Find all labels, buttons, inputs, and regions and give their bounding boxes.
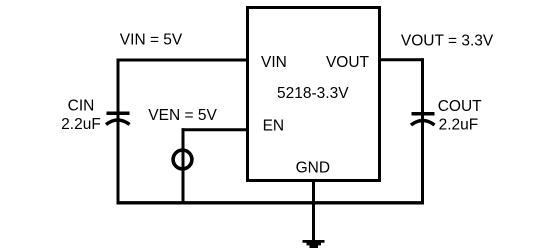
wire bottom ground rail bbox=[117, 201, 425, 204]
wire EN horizontal bbox=[182, 128, 250, 131]
wire VOUT horizontal bbox=[378, 58, 424, 61]
svg-text:2.2uF: 2.2uF bbox=[439, 116, 479, 133]
ground symbol bbox=[303, 240, 325, 248]
svg-text:GND: GND bbox=[296, 160, 330, 177]
svg-text:2.2uF: 2.2uF bbox=[61, 116, 101, 133]
wire VIN horizontal bbox=[117, 59, 250, 62]
enable source circle symbol bbox=[173, 150, 192, 169]
svg-text:EN: EN bbox=[263, 118, 285, 135]
svg-text:VIN = 5V: VIN = 5V bbox=[120, 32, 183, 49]
op-amp U1 regulator body 5218-3.3V bbox=[248, 8, 380, 181]
capacitor C1 CIN top plate bbox=[107, 111, 130, 115]
capacitor C2 COUT curved plate bbox=[411, 121, 435, 126]
wire left vertical bbox=[117, 59, 120, 205]
svg-text:CIN: CIN bbox=[68, 97, 95, 114]
wire right vertical bbox=[421, 58, 424, 204]
wire EN vertical bbox=[182, 128, 185, 204]
svg-text:VIN: VIN bbox=[261, 54, 287, 71]
capacitor C2 COUT top plate bbox=[412, 112, 435, 116]
svg-text:5218-3.3V: 5218-3.3V bbox=[277, 85, 349, 102]
svg-text:VEN = 5V: VEN = 5V bbox=[148, 107, 217, 124]
svg-text:COUT: COUT bbox=[438, 98, 482, 115]
svg-text:VOUT: VOUT bbox=[326, 54, 370, 71]
capacitor C1 CIN curved plate bbox=[106, 120, 130, 125]
svg-text:VOUT = 3.3V: VOUT = 3.3V bbox=[401, 33, 494, 50]
wire GND vertical bbox=[312, 179, 315, 241]
